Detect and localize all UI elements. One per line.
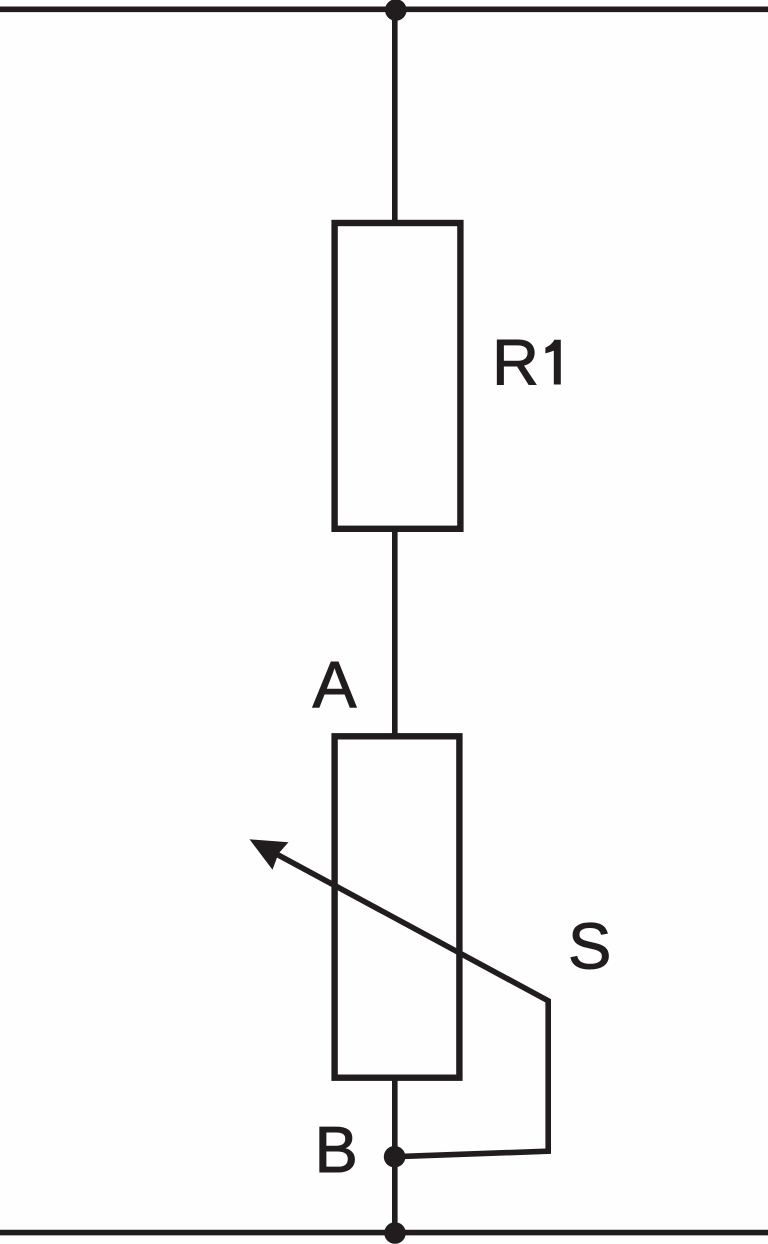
node junction dot on bottom rail xyxy=(384,1222,406,1244)
svg-text:B: B xyxy=(315,1113,358,1186)
rheostat wiper arrow shaft xyxy=(271,851,548,1157)
wire from top rail to R1 xyxy=(392,9,398,224)
resistor R1 xyxy=(335,223,461,529)
wire bottom supply rail xyxy=(0,1230,768,1236)
wire top supply rail xyxy=(0,7,768,13)
wire rheostat bottom to bottom rail xyxy=(392,1077,398,1234)
svg-text:A: A xyxy=(313,648,357,722)
rheostat wiper arrowhead xyxy=(250,839,289,870)
wire R1 to rheostat S (node A) xyxy=(392,528,398,737)
rheostat S body xyxy=(335,736,460,1077)
svg-text:R: R xyxy=(492,326,539,399)
svg-text:S: S xyxy=(568,910,611,983)
node B junction dot xyxy=(384,1146,406,1168)
node junction dot on top rail xyxy=(385,0,407,21)
